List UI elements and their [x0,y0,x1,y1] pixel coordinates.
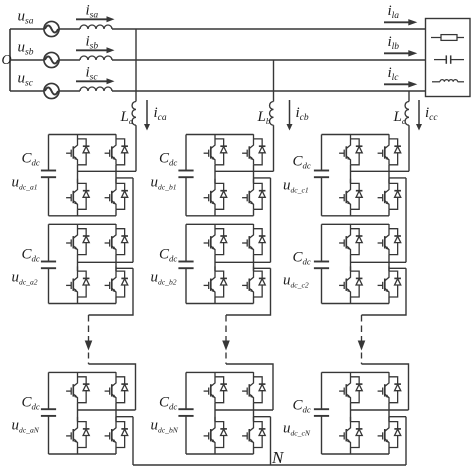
capacitor Cdc_cN [314,372,329,454]
cell b1 right leg tail [253,209,255,216]
transistor Q3_cN [339,417,350,448]
transistor Q1_c1 [339,134,350,165]
diode Q1_b1D [215,139,227,165]
wire phase c drop lower [408,125,410,171]
wire phase a to load [112,28,426,30]
wire phase c source to inductor [59,90,80,92]
transistor Q2_c2 [378,224,389,255]
cell a1 output tap [116,177,133,179]
diode Q3_aND [78,422,90,448]
diode Q3_a1D [78,183,90,209]
cell c1 output tap [389,177,406,179]
diode Q3_cND [351,422,363,448]
cell c2 output tap [389,267,406,269]
cell c1 left leg wire [350,165,352,184]
transistor Q2_b1 [242,134,253,165]
cell c1 right leg wire [388,165,390,184]
cell bN right leg wire [253,403,255,422]
cell c2 mid rail [351,261,407,263]
wire cell cN to N bus [405,417,407,465]
cell aN right leg tail [115,448,117,455]
transistor Q1_b2 [204,224,215,255]
cell c2 left leg tail [350,297,352,304]
cell a1 bottom rail [49,215,117,217]
capacitor Cdc_c1 [314,135,329,216]
wire to cell aN [89,364,136,410]
cell cN right leg tail [388,448,390,455]
diode Q2_c2D [389,229,401,255]
current arrow i_sc [76,80,108,82]
current arrow i_la [384,21,410,23]
wire phase b to load [112,59,426,61]
wire cell b2 exit [226,268,271,315]
cell a2 top rail [49,223,117,225]
cell b1 bottom rail [186,215,254,217]
wire phase c to load [112,90,426,92]
transistor Q4_b2 [242,266,253,297]
cell a1 left leg tail [77,209,79,216]
wire phase b source to inductor [59,59,80,61]
cell bN output tap [254,416,271,418]
wire phase b drop [273,60,275,102]
cell a1 left leg wire [77,165,79,184]
cell aN mid rail [78,409,136,411]
cell b1 right leg wire [253,165,255,184]
cell a2 bottom rail [49,303,117,305]
cell c1 right leg tail [388,209,390,216]
cell b2 output tap [254,267,271,269]
cell bN right leg tail [253,448,255,455]
diode Q1_a1D [78,139,90,165]
cell b2 mid rail [215,261,271,263]
cell a1 right leg tail [115,209,117,216]
transistor Q1_cN [339,372,350,403]
diode Q4_bND [254,422,266,448]
transistor Q3_aN [66,417,77,448]
cell b2 right leg wire [253,255,255,272]
svg-text:N: N [271,448,285,467]
diode Q2_bND [254,377,266,403]
wire phase b drop lower [273,125,275,171]
coupling inductor L_a [132,102,136,126]
wire cell a2 exit [89,268,134,315]
cell c2 right leg wire [388,255,390,272]
current arrow i_cb [289,100,291,125]
cell c1 bottom rail [322,215,390,217]
current arrow i_sa [76,18,108,20]
diode Q1_a2D [78,229,90,255]
source inductor phase a [80,25,112,29]
cell bN top rail [186,371,254,373]
diode Q4_b1D [254,183,266,209]
diode Q1_c2D [351,229,363,255]
transistor Q3_c1 [339,179,350,210]
diode Q2_b1D [254,139,266,165]
transistor Q3_bN [204,417,215,448]
cell aN right leg wire [115,403,117,422]
wire cell c2 exit [362,268,407,315]
wire cell b1 to b2 [270,178,272,262]
transistor Q4_b1 [242,179,253,210]
diode Q4_a1D [116,183,128,209]
cell bN mid rail [215,409,273,411]
cell cN bottom rail [322,453,390,455]
source inductor phase b [80,56,112,60]
cell a2 left leg wire [77,255,79,272]
wire to cell bN [226,364,273,410]
cell c1 left leg tail [350,209,352,216]
current arrow i_ca [146,100,148,125]
transistor Q2_aN [105,372,116,403]
cell aN output tap [116,416,133,418]
coupling inductor L_b [270,102,274,126]
transistor Q1_a1 [66,134,77,165]
diode Q4_c1D [389,183,401,209]
cell bN left leg wire [214,403,216,422]
current arrow i_lc [384,83,410,85]
load box [426,19,471,97]
cell c2 bottom rail [322,303,390,305]
diode Q2_c1D [389,139,401,165]
cell cN output tap [389,416,406,418]
cell a2 right leg tail [115,297,117,304]
wire phase a drop [135,29,137,102]
diode Q4_c2D [389,271,401,297]
cell c1 top rail [322,134,390,136]
diode Q4_a2D [116,271,128,297]
diode Q1_cND [351,377,363,403]
transistor Q3_a2 [66,266,77,297]
ac source u_sc [44,83,59,98]
wire cell aN to N bus [132,417,134,465]
wire phase b from bus to source [10,59,44,61]
source inductor phase c [80,87,112,91]
diode Q3_b1D [215,183,227,209]
node O bus [9,29,11,91]
cell b2 left leg wire [214,255,216,272]
wire cell a1 to a2 [132,178,134,262]
capacitor Cdc_b1 [178,135,193,216]
cell a2 mid rail [78,261,134,263]
capacitor Cdc_a2 [41,224,56,303]
transistor Q2_bN [242,372,253,403]
transistor Q2_a1 [105,134,116,165]
current arrow i_cc [418,100,420,125]
transistor Q3_b1 [204,179,215,210]
wire cell c1 to c2 [405,178,407,262]
coupling inductor L_c [405,102,409,126]
transistor Q1_bN [204,372,215,403]
cell cN mid rail [351,409,409,411]
load inductor [432,80,464,82]
diode Q2_aND [116,377,128,403]
cell b1 top rail [186,134,254,136]
cell b1 left leg tail [214,209,216,216]
transistor Q2_c1 [378,134,389,165]
wire N bus [133,464,406,466]
cell a2 right leg wire [115,255,117,272]
transistor Q4_c2 [378,266,389,297]
cell b2 bottom rail [186,303,254,305]
cell a1 right leg wire [115,165,117,184]
diode Q3_b2D [215,271,227,297]
cell cN right leg wire [388,403,390,422]
diode Q1_bND [215,377,227,403]
diode Q3_c2D [351,271,363,297]
transistor Q2_b2 [242,224,253,255]
ac source u_sb [44,52,59,67]
cell b2 top rail [186,223,254,225]
cell aN left leg tail [77,448,79,455]
cell a2 left leg tail [77,297,79,304]
diode Q2_b2D [254,229,266,255]
diode Q4_aND [116,422,128,448]
transistor Q3_c2 [339,266,350,297]
transistor Q4_bN [242,417,253,448]
cell bN bottom rail [186,453,254,455]
capacitor Cdc_bN [178,372,193,454]
transistor Q3_b2 [204,266,215,297]
diode Q4_cND [389,422,401,448]
diode Q2_cND [389,377,401,403]
cell c2 top rail [322,223,390,225]
cell a1 mid rail [78,170,137,172]
transistor Q4_aN [105,417,116,448]
ac source u_sa [44,21,59,36]
transistor Q3_a1 [66,179,77,210]
diode Q1_b2D [215,229,227,255]
transistor Q1_aN [66,372,77,403]
transistor Q4_a2 [105,266,116,297]
cell aN top rail [49,371,117,373]
wire to cell cN [362,364,409,410]
cell cN top rail [322,371,390,373]
cell cN left leg tail [350,448,352,455]
wire phase c from bus to source [10,90,44,92]
transistor Q4_c1 [378,179,389,210]
wire phase c drop [408,91,410,102]
current arrow i_lb [384,52,410,54]
cell b1 mid rail [215,170,274,172]
capacitor Cdc_aN [41,372,56,454]
cell b1 left leg wire [214,165,216,184]
dashed link phase c [361,315,363,341]
wire phase a drop lower [135,125,137,171]
transistor Q1_b1 [204,134,215,165]
cell a1 top rail [49,134,117,136]
cell b1 output tap [254,177,271,179]
capacitor Cdc_b2 [178,224,193,303]
cell b2 right leg tail [253,297,255,304]
dashed link phase a [88,315,90,341]
cell b2 left leg tail [214,297,216,304]
transistor Q2_a2 [105,224,116,255]
current arrow i_sb [76,49,108,51]
dashed link phase b [225,315,227,341]
diode Q3_bND [215,422,227,448]
diode Q2_a1D [116,139,128,165]
cell a2 output tap [116,267,133,269]
capacitor Cdc_c2 [314,224,329,303]
cell c2 left leg wire [350,255,352,272]
diode Q1_c1D [351,139,363,165]
cell aN left leg wire [77,403,79,422]
transistor Q2_cN [378,372,389,403]
transistor Q4_cN [378,417,389,448]
diode Q1_aND [78,377,90,403]
load capacitor [434,55,464,63]
wire phase a from bus to source [10,28,44,30]
diode Q2_a2D [116,229,128,255]
wire cell bN to N bus [270,417,272,465]
cell c2 right leg tail [388,297,390,304]
diode Q3_c1D [351,183,363,209]
cell c1 mid rail [351,170,410,172]
transistor Q4_a1 [105,179,116,210]
capacitor Cdc_a1 [41,135,56,216]
load resistor [431,35,464,41]
cell aN bottom rail [49,453,117,455]
cell cN left leg wire [350,403,352,422]
transistor Q1_c2 [339,224,350,255]
transistor Q1_a2 [66,224,77,255]
diode Q4_b2D [254,271,266,297]
diode Q3_a2D [78,271,90,297]
cell bN left leg tail [214,448,216,455]
wire phase a source to inductor [59,28,80,30]
